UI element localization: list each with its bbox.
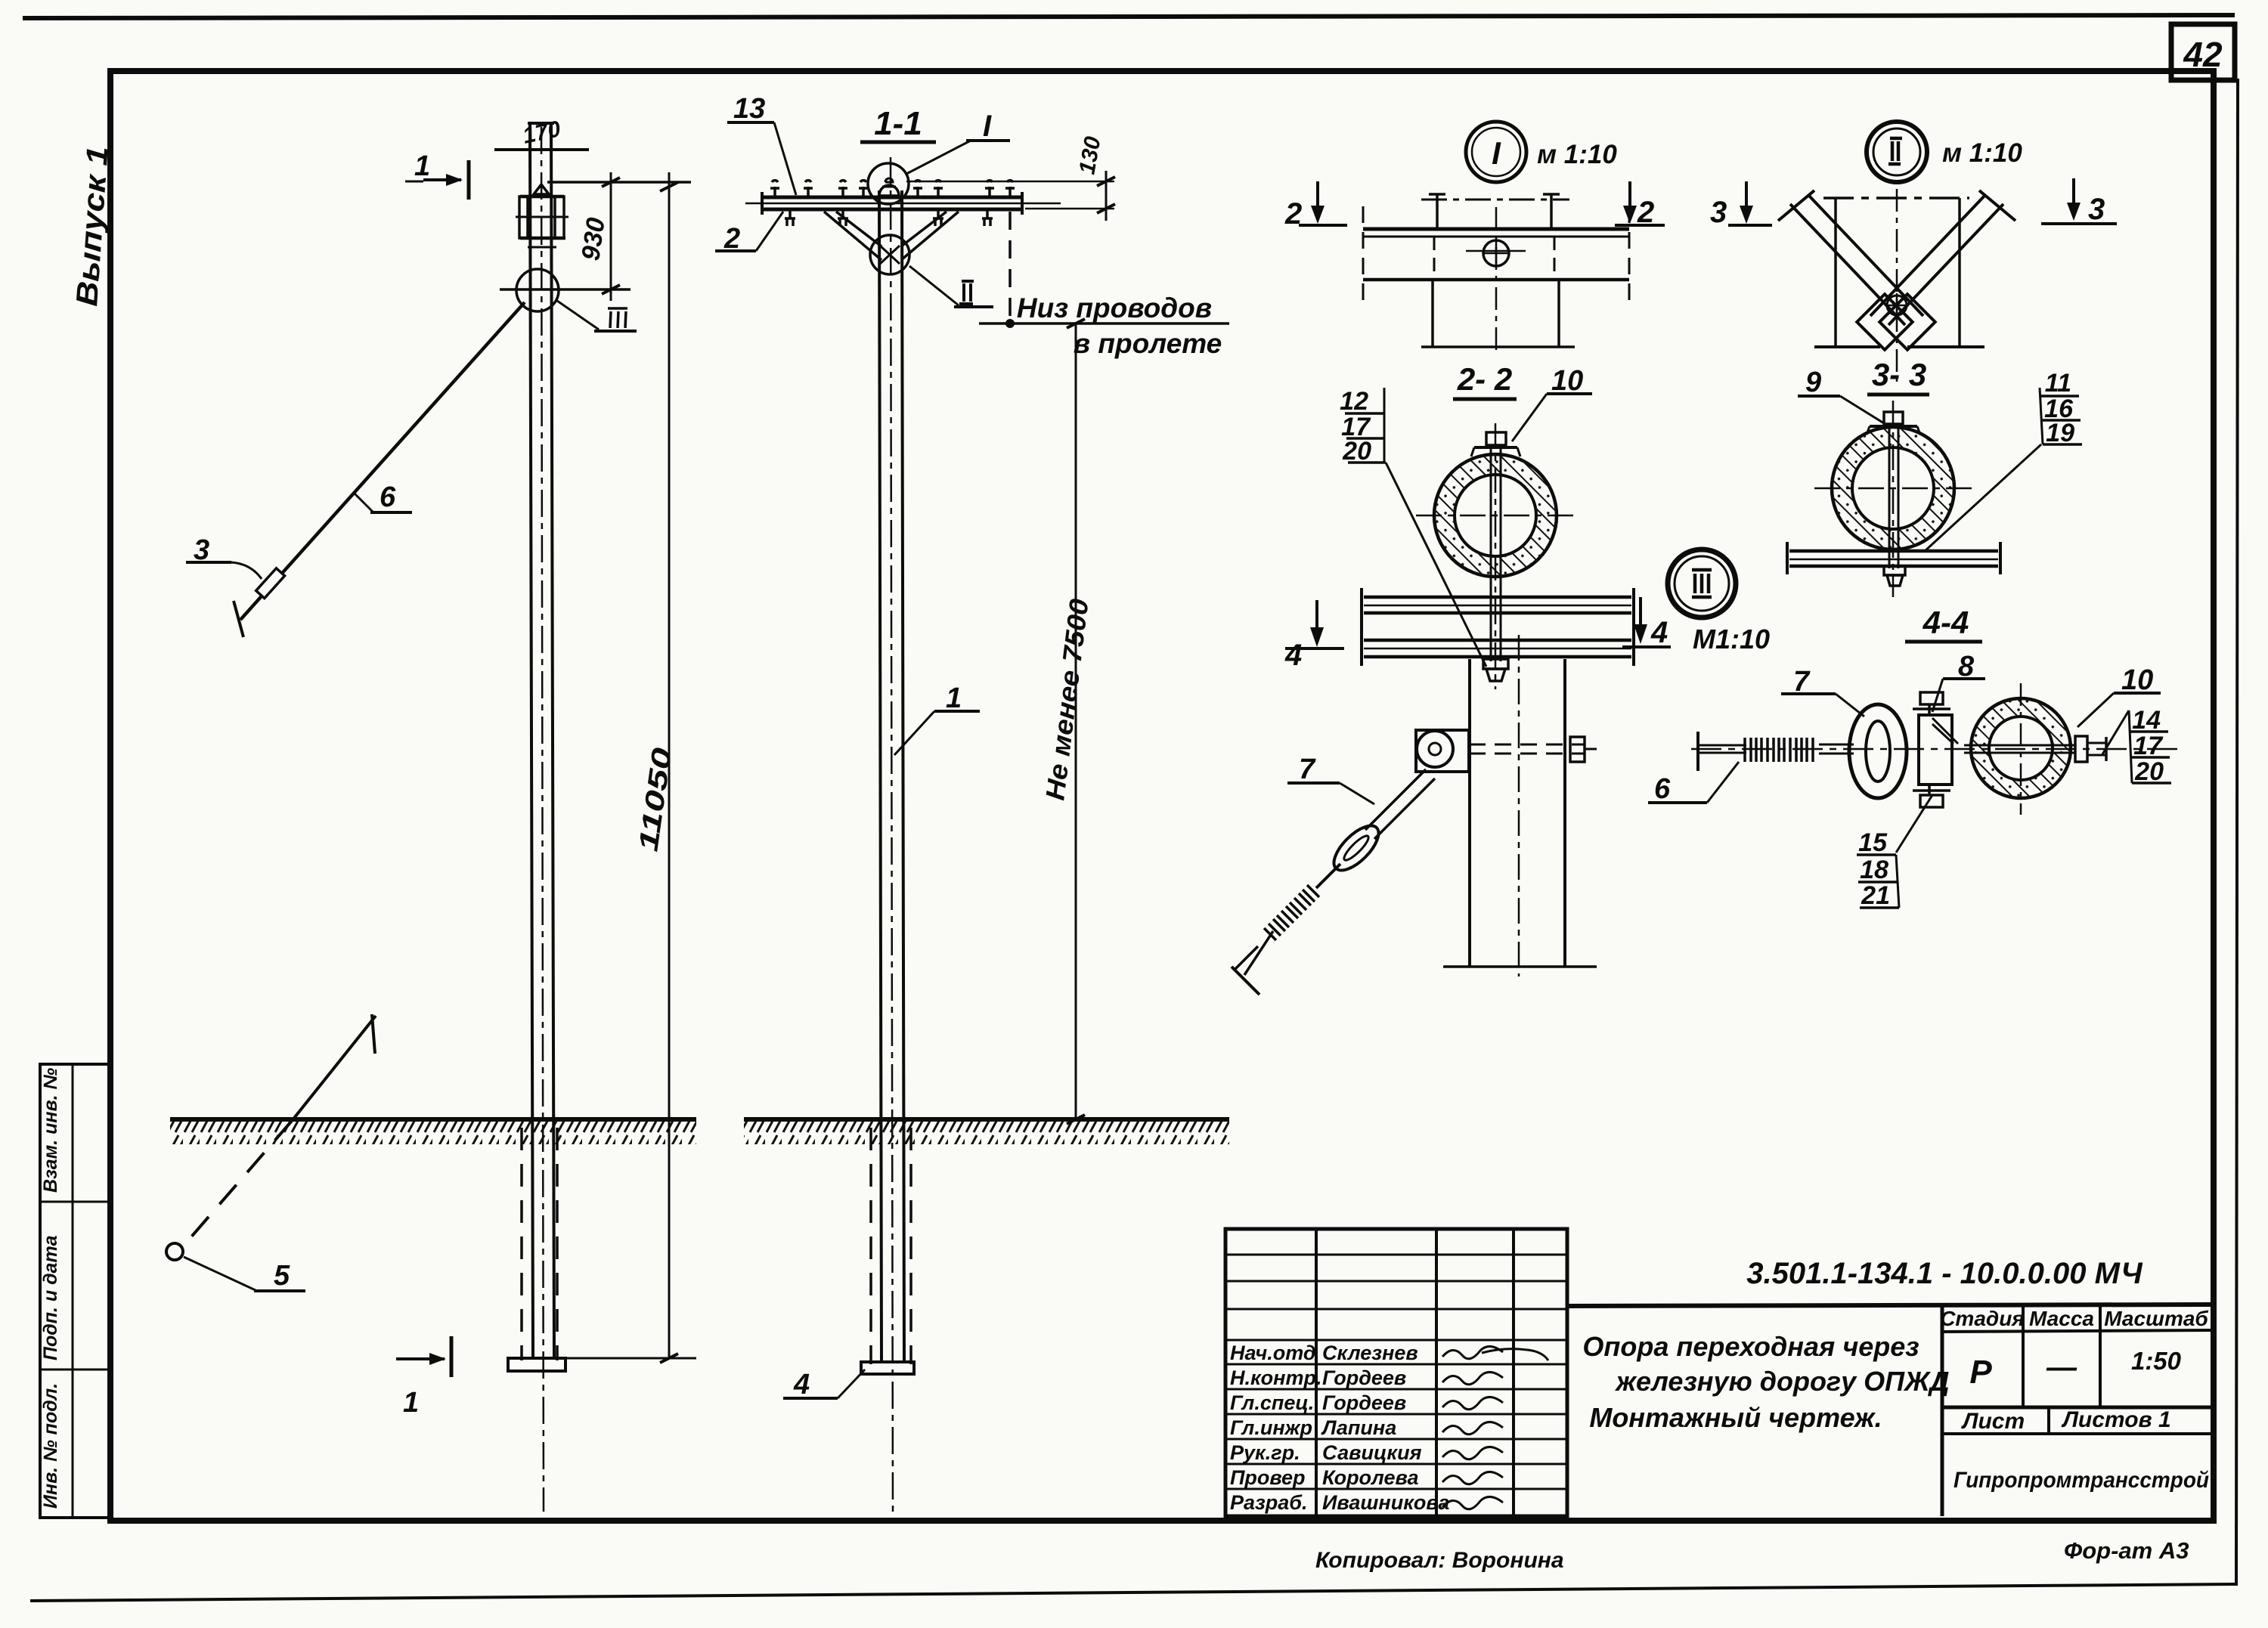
svg-text:I: I bbox=[983, 110, 992, 143]
4-4 pole ring section bbox=[1969, 683, 2073, 815]
svg-text:13: 13 bbox=[733, 93, 765, 125]
svg-text:Лист: Лист bbox=[1961, 1409, 2025, 1434]
view title 1-1 bbox=[860, 105, 936, 142]
svg-text:Масса: Масса bbox=[2029, 1307, 2094, 1330]
detail II scale bbox=[1942, 138, 2022, 168]
svg-text:в пролете: в пролете bbox=[1074, 328, 1222, 359]
page number box 42 bbox=[2171, 24, 2235, 80]
2-2 crossarm channels bbox=[1362, 588, 1634, 666]
svg-text:3: 3 bbox=[2088, 193, 2105, 226]
label 10 (4-4 pole) bbox=[2077, 664, 2161, 727]
section mark 3 (left) bbox=[1710, 181, 1772, 229]
svg-text:11: 11 bbox=[2045, 369, 2071, 398]
4-4 rod to shackle bbox=[1819, 744, 1854, 754]
left stamp sidebar bbox=[40, 1064, 110, 1518]
label 4 (base plate) bbox=[783, 1369, 865, 1401]
svg-text:Савицкия: Савицкия bbox=[1322, 1441, 1422, 1464]
svg-text:21: 21 bbox=[1861, 881, 1890, 910]
node III turnbuckle assembly bbox=[1316, 769, 1435, 888]
svg-text:Нач.отд: Нач.отд bbox=[1230, 1342, 1316, 1364]
labels 11/16/19 stack bbox=[1924, 369, 2082, 552]
label 5 (anchor) bbox=[184, 1257, 305, 1292]
labels 14/17/20 stack (4-4) bbox=[2102, 706, 2171, 786]
section mark 2 (right) bbox=[1615, 181, 1665, 229]
svg-text:4-4: 4-4 bbox=[1923, 605, 1969, 640]
svg-text:Гордеев: Гордеев bbox=[1322, 1391, 1406, 1414]
svg-text:12: 12 bbox=[1340, 387, 1368, 416]
svg-text:железную дорогу ОПЖД: железную дорогу ОПЖД bbox=[1615, 1366, 1950, 1397]
node III clamp and eye bbox=[1416, 730, 1469, 772]
top reference line for dims bbox=[547, 181, 691, 184]
svg-text:Провер: Провер bbox=[1230, 1466, 1306, 1489]
detail III bubble bbox=[1668, 549, 1736, 617]
pole 1 crossarm bracket (side view) bbox=[516, 184, 569, 247]
svg-text:Гипропромтрансстрой: Гипропромтрансстрой bbox=[1954, 1468, 2209, 1493]
svg-text:Ивашникова: Ивашникова bbox=[1322, 1491, 1449, 1514]
detail I scale bbox=[1537, 140, 1617, 169]
title block right part bbox=[1567, 1229, 2214, 1516]
V braces from pole to crossarm bbox=[824, 212, 959, 260]
pole 1 (side view) body bbox=[528, 123, 554, 1512]
label 13 (top left) bbox=[727, 93, 796, 195]
label 1 (pole 2) bbox=[894, 682, 980, 755]
drawing title text bbox=[1582, 1331, 1949, 1433]
4-4 centerline bbox=[1691, 748, 2177, 751]
svg-text:Низ проводов: Низ проводов bbox=[1017, 292, 1212, 323]
svg-text:Монтажный чертеж.: Монтажный чертеж. bbox=[1589, 1402, 1882, 1433]
svg-text:м 1:10: м 1:10 bbox=[1537, 140, 1617, 169]
pole 2 below ground hole dashed edges bbox=[871, 1128, 911, 1364]
svg-text:5: 5 bbox=[274, 1260, 290, 1292]
section arrow 1 (bottom) bbox=[396, 1336, 451, 1419]
kopiroval line bbox=[1315, 1548, 1564, 1573]
pole 2 base plate bbox=[861, 1362, 914, 1374]
pole 2 (front view) body bbox=[879, 157, 904, 1516]
signatures squiggles bbox=[1442, 1346, 1548, 1509]
svg-text:Инв. № подл.: Инв. № подл. bbox=[40, 1383, 61, 1509]
ground line right segment bbox=[744, 1119, 1229, 1144]
section mark 2 (left) bbox=[1284, 181, 1347, 231]
crossarm lower clamps bbox=[785, 209, 993, 226]
svg-text:Масштаб: Масштаб bbox=[2104, 1307, 2208, 1330]
outer bottom thin border bbox=[30, 1584, 2235, 1601]
svg-text:1-1: 1-1 bbox=[874, 105, 922, 142]
svg-text:7: 7 bbox=[1299, 754, 1316, 785]
svg-text:4: 4 bbox=[1650, 616, 1668, 649]
2-2 centerlines bbox=[1416, 423, 1576, 689]
svg-text:Взам. инв. №: Взам. инв. № bbox=[40, 1068, 61, 1193]
3-3 bottom nut bbox=[1884, 566, 1905, 586]
section title 2-2 bbox=[1453, 361, 1517, 399]
dimension 11050 bbox=[632, 172, 678, 1363]
guy attachment node circle (pole 1) bbox=[516, 269, 559, 311]
section mark 4 (right) bbox=[1622, 597, 1671, 649]
svg-text:Копировал: Воронина: Копировал: Воронина bbox=[1315, 1548, 1564, 1573]
crossarm (front view) bbox=[745, 192, 1061, 215]
2-2 pole ring section bbox=[1433, 453, 1560, 580]
wire bottom level line bbox=[979, 319, 1229, 328]
svg-text:4: 4 bbox=[793, 1369, 810, 1401]
label 9 (3-3) bbox=[1798, 367, 1884, 423]
label 6 (4-4 wire) bbox=[1648, 762, 1739, 805]
detail II bubble bbox=[1867, 122, 1927, 182]
svg-text:Н.контр.: Н.контр. bbox=[1230, 1366, 1322, 1389]
svg-text:Опора переходная через: Опора переходная через bbox=[1582, 1331, 1919, 1362]
svg-text:Склезнев: Склезнев bbox=[1322, 1342, 1418, 1364]
dim 130 bbox=[906, 135, 1115, 221]
outer right thin border bbox=[2236, 79, 2238, 1586]
section arrow 1 (top) bbox=[405, 150, 469, 200]
4-4 coil wrap bbox=[1745, 738, 1813, 762]
svg-text:Гордеев: Гордеев bbox=[1322, 1366, 1406, 1389]
svg-text:I: I bbox=[1492, 135, 1501, 171]
label 8 (4-4 clamp) bbox=[1932, 651, 1985, 712]
svg-text:3- 3: 3- 3 bbox=[1872, 357, 1926, 392]
detail I drawing: crossarm plan with pole stub bbox=[1363, 193, 1629, 355]
turnbuckle on guy anchor rod bbox=[256, 568, 285, 599]
label 2 (crossarm) bbox=[715, 212, 783, 255]
svg-text:Рук.гр.: Рук.гр. bbox=[1230, 1441, 1300, 1464]
svg-text:4: 4 bbox=[1284, 639, 1302, 672]
label 7 (node III turnbuckle) bbox=[1287, 754, 1374, 804]
labels 15/18/21 stack (4-4) bbox=[1857, 795, 1932, 910]
3-3 crossarm bbox=[1787, 542, 2000, 574]
svg-text:Листов 1: Листов 1 bbox=[2061, 1407, 2170, 1432]
detail II circle (guy node front) bbox=[870, 235, 909, 274]
pole 1 top reference line bbox=[494, 148, 589, 151]
detail III scale bbox=[1693, 624, 1770, 655]
stadia massa masshtab bbox=[1940, 1307, 2209, 1493]
guy wire lower part with break bbox=[184, 1014, 376, 1246]
2-2 grounding clamp on top bbox=[1471, 432, 1520, 661]
title block names bbox=[1230, 1342, 1449, 1514]
format A3 bbox=[2064, 1537, 2189, 1564]
pole 1 below ground hole dashed edges bbox=[522, 1128, 557, 1360]
title block table bbox=[1225, 1229, 1567, 1516]
svg-text:18: 18 bbox=[1860, 856, 1888, 884]
dimension 930 bbox=[576, 172, 620, 301]
dim Ne menee 7500 bbox=[1040, 323, 1094, 1124]
label 3 (anchor rod) bbox=[186, 534, 262, 579]
section mark 4 (left) bbox=[1284, 600, 1344, 672]
node III bolt through pole bbox=[1469, 737, 1597, 762]
3-3 centerlines bbox=[1814, 401, 1976, 597]
svg-text:Королева: Королева bbox=[1322, 1466, 1418, 1489]
3-3 top clamp bbox=[1867, 412, 1920, 568]
rotated release label Vypusk 1 bbox=[70, 145, 115, 308]
drawing code bbox=[1746, 1257, 2143, 1290]
bottom reference line pole 1 bbox=[565, 1357, 696, 1360]
svg-text:Фор-ат А3: Фор-ат А3 bbox=[2064, 1537, 2189, 1564]
label I leader bbox=[906, 110, 1010, 174]
sheet top border line bbox=[23, 15, 2235, 18]
svg-text:Гл.инжр: Гл.инжр bbox=[1230, 1416, 1312, 1439]
section title 3-3 bbox=[1867, 357, 1929, 395]
detail I bubble bbox=[1466, 122, 1526, 182]
svg-text:10: 10 bbox=[1551, 365, 1583, 397]
horizontal ref line at guy node bbox=[500, 288, 631, 291]
svg-text:—: — bbox=[2046, 1351, 2077, 1384]
label 7 (4-4 shackle) bbox=[1781, 666, 1864, 717]
node III guy end tick bbox=[1232, 946, 1259, 995]
svg-text:9: 9 bbox=[1805, 367, 1821, 398]
svg-text:1:50: 1:50 bbox=[2131, 1347, 2182, 1375]
svg-text:1: 1 bbox=[946, 682, 962, 714]
svg-text:Лапина: Лапина bbox=[1321, 1416, 1396, 1439]
node III guy coil wrap bbox=[1264, 885, 1319, 940]
pole 1 base plate bbox=[508, 1339, 565, 1371]
svg-text:3.501.1-134.1 - 10.0.0.00 МЧ: 3.501.1-134.1 - 10.0.0.00 МЧ bbox=[1746, 1257, 2143, 1290]
node III drawing: pole stub with guy clamp bbox=[1443, 635, 1597, 976]
detail I circle (top insulator) bbox=[868, 163, 909, 204]
svg-text:3: 3 bbox=[1710, 196, 1727, 229]
node III guy wire tail bbox=[1244, 931, 1273, 975]
4-4 rod through pole and nut bbox=[1964, 736, 2106, 762]
4-4 clamp 8 bbox=[1913, 692, 1958, 807]
svg-text:М1:10: М1:10 bbox=[1693, 624, 1770, 655]
svg-text:Р: Р bbox=[1969, 1354, 1992, 1391]
svg-text:1: 1 bbox=[414, 150, 430, 182]
label 10 (2-2) bbox=[1512, 365, 1592, 441]
svg-text:Стадия: Стадия bbox=[1940, 1307, 2025, 1330]
svg-text:м 1:10: м 1:10 bbox=[1942, 138, 2022, 168]
crossarm insulator pins bbox=[770, 181, 1015, 197]
svg-text:15: 15 bbox=[1858, 828, 1888, 857]
2-2 bottom nut bbox=[1483, 659, 1508, 681]
svg-text:Разраб.: Разраб. bbox=[1230, 1491, 1308, 1514]
labels 12/17/20 stack bbox=[1340, 387, 1486, 667]
ground line left segment bbox=[170, 1119, 696, 1144]
4-4 guy wire left end bbox=[1698, 732, 1746, 771]
svg-text:6: 6 bbox=[1654, 773, 1671, 805]
text Niz provodov v prolete bbox=[1017, 292, 1222, 359]
section title 4-4 bbox=[1905, 605, 1982, 642]
label II leader bbox=[909, 266, 993, 307]
svg-text:Подп. и дата: Подп. и дата bbox=[40, 1235, 61, 1360]
svg-text:930: 930 bbox=[576, 216, 611, 263]
buried anchor circle bbox=[166, 1243, 183, 1260]
svg-text:1: 1 bbox=[403, 1387, 419, 1419]
section mark 3 (right of detail II) bbox=[2041, 178, 2117, 226]
label 6 (guy wire) bbox=[354, 481, 412, 513]
guy wire upper part bbox=[234, 302, 525, 637]
3-3 pole ring section bbox=[1830, 426, 1957, 552]
svg-text:2- 2: 2- 2 bbox=[1457, 361, 1512, 397]
pole 1 top mark 170 bbox=[521, 116, 563, 149]
svg-text:Гл.спец.: Гл.спец. bbox=[1230, 1391, 1314, 1414]
dashed wire-level drop line bbox=[1009, 212, 1012, 323]
4-4 shackle link 7 bbox=[1849, 704, 1907, 798]
svg-text:10: 10 bbox=[2121, 664, 2153, 696]
svg-text:6: 6 bbox=[380, 481, 396, 513]
detail II drawing: V guy clamp at pole top bbox=[1778, 189, 2015, 382]
node III label at pole 1 bbox=[557, 301, 637, 331]
